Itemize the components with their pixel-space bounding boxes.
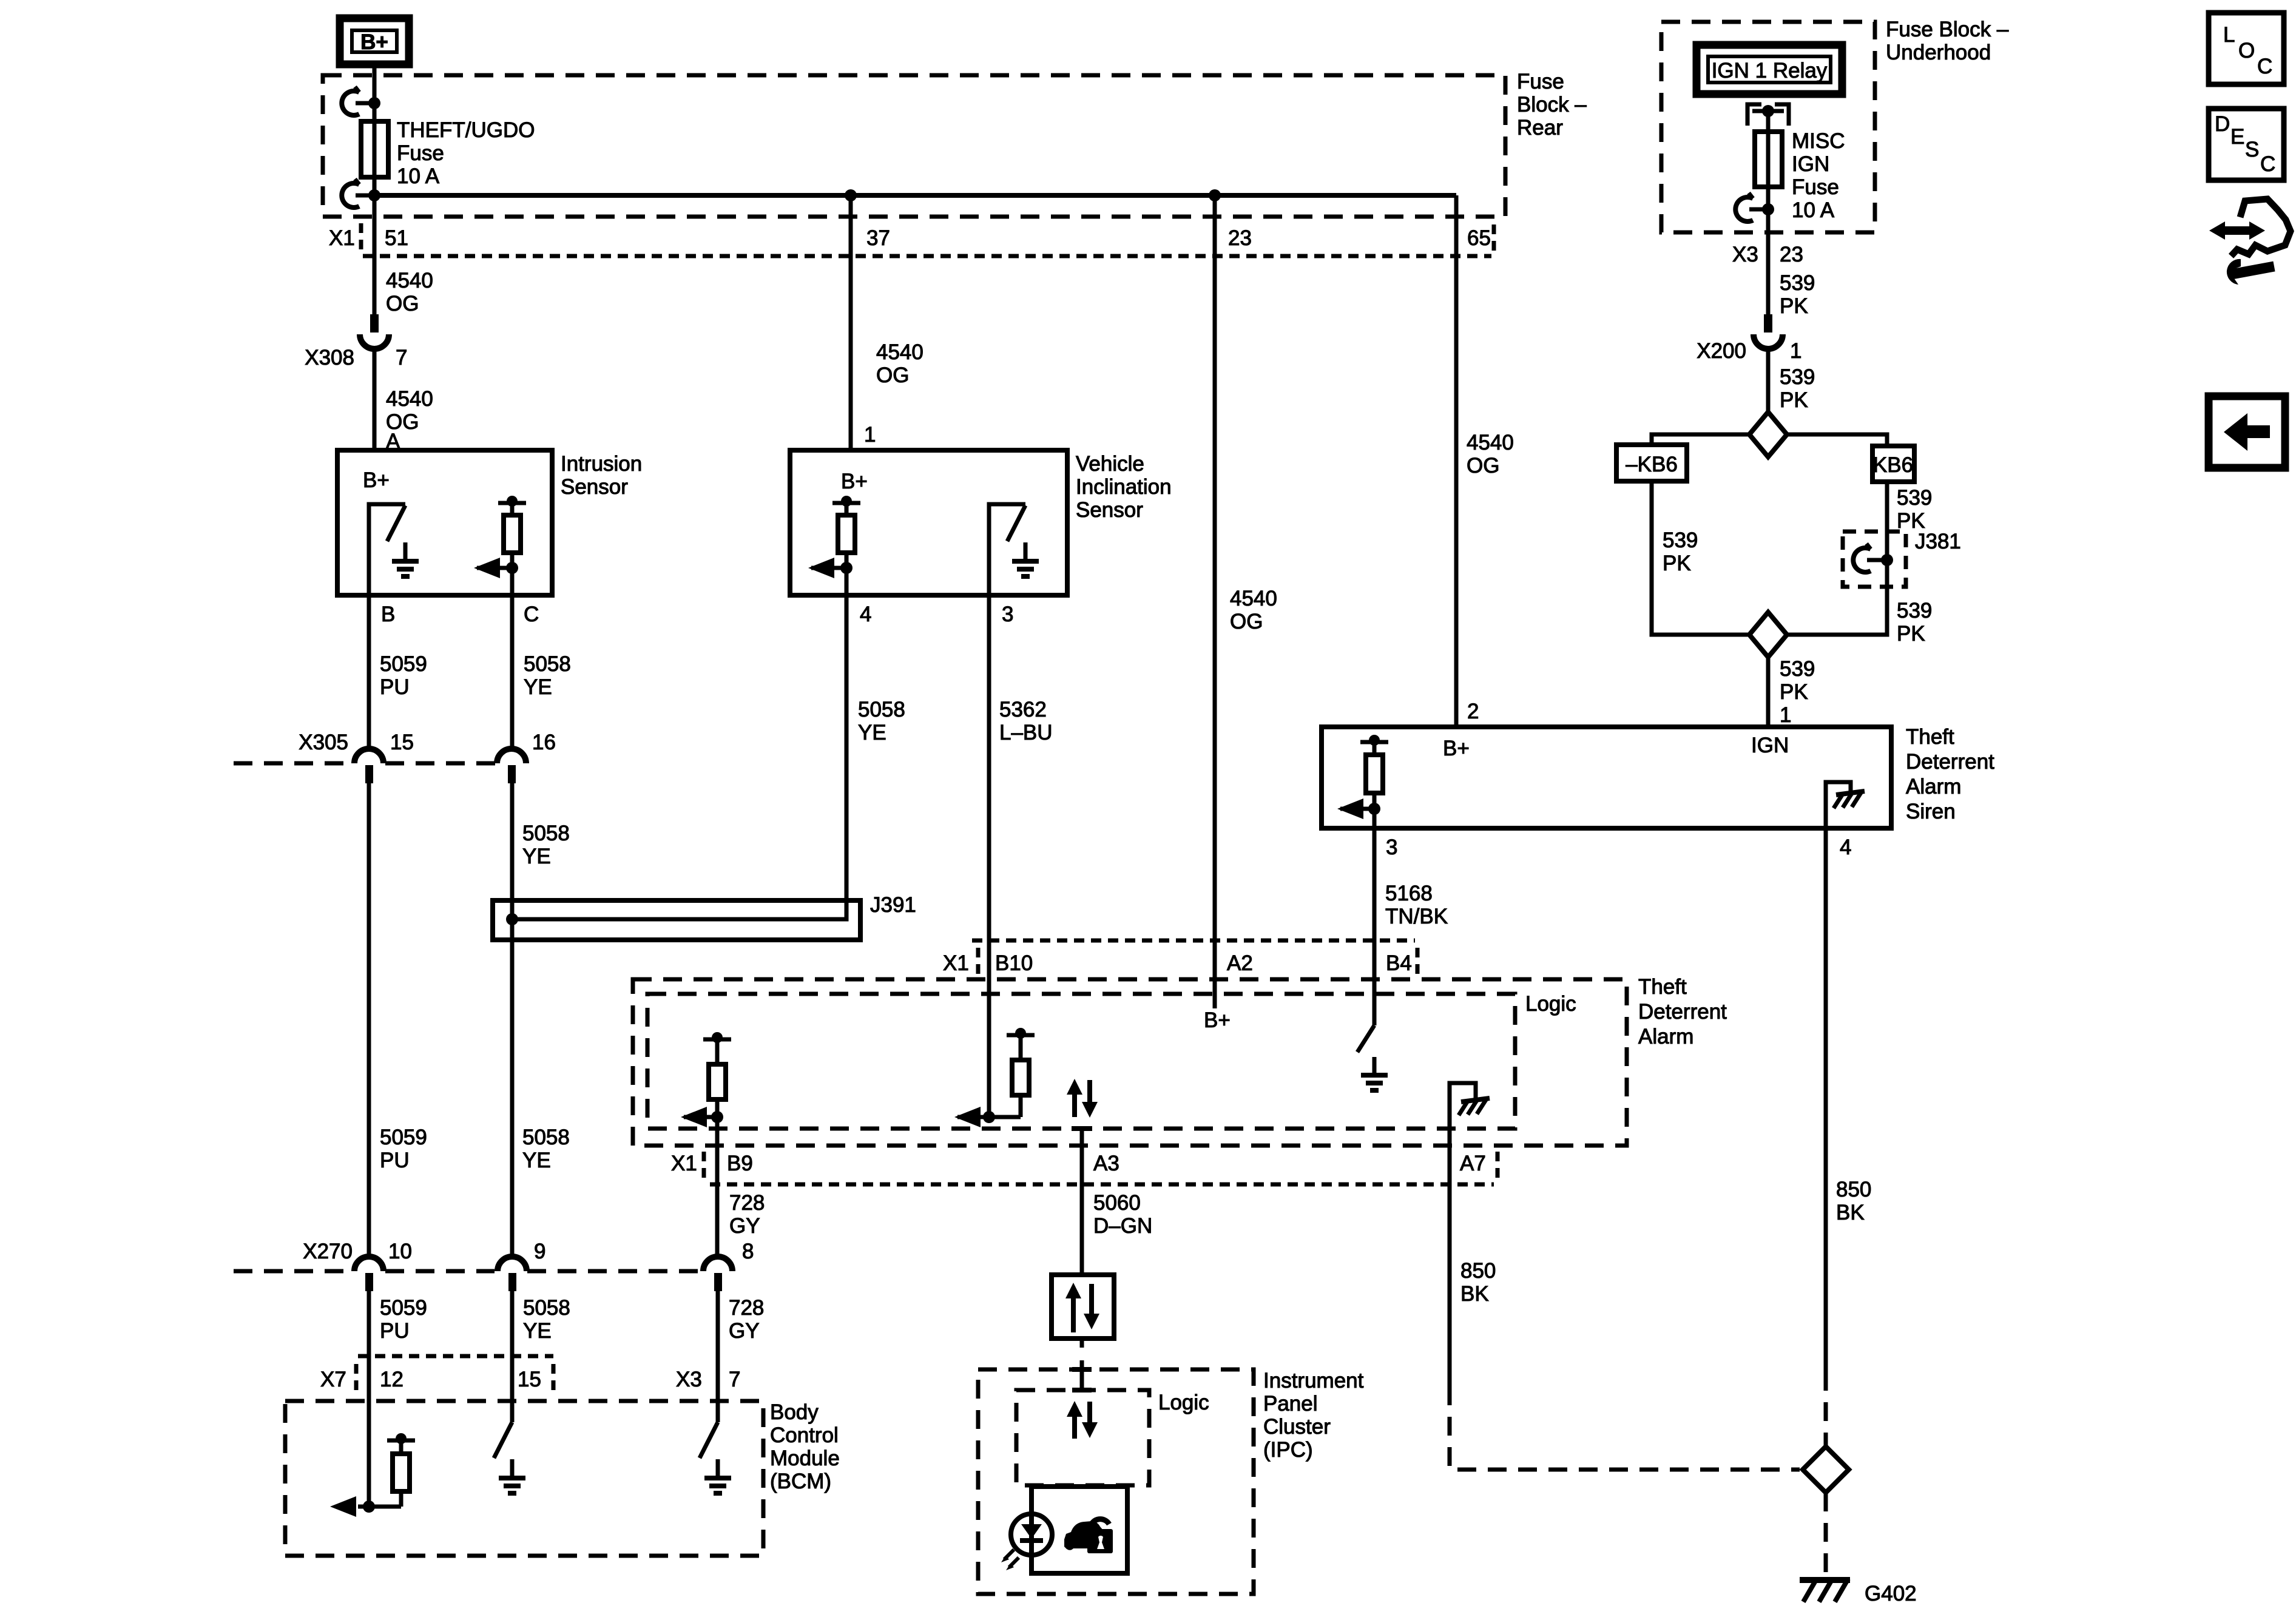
output arrow siren	[1337, 798, 1380, 819]
wire label 539 PK (X3-23)	[1780, 271, 1815, 318]
svg-text:37: 37	[866, 226, 890, 250]
serial data arrows (IPC logic)	[1067, 1401, 1098, 1439]
wire label 5362 L-BU	[999, 698, 1053, 744]
resistor input BCM	[358, 1433, 415, 1507]
label MISC IGN Fuse 10 A	[1792, 129, 1845, 222]
tick right of B4	[1416, 948, 1420, 976]
ground inclination sensor internal	[1012, 542, 1039, 576]
fuse holder clip bottom	[342, 179, 380, 208]
wire label 728 GY (B9)	[729, 1191, 765, 1238]
input arrow BCM	[330, 1496, 356, 1517]
svg-text:Module: Module	[770, 1447, 840, 1470]
wire label 4540 OG (below pin 51)	[386, 269, 433, 316]
wire branch to KB6	[1787, 434, 1887, 446]
tick right of A7	[1496, 1152, 1500, 1180]
svg-text:5059: 5059	[380, 1296, 427, 1320]
connector X305 dashed line	[234, 761, 495, 766]
label THEFT/UGDO Fuse 10 A	[397, 118, 535, 188]
svg-text:15: 15	[518, 1368, 541, 1391]
icon wiring repair	[2209, 199, 2291, 285]
svg-text:PK: PK	[1663, 552, 1691, 575]
svg-text:X308: X308	[305, 346, 354, 370]
wire 5058 YE pin 4 to splice J391	[845, 568, 849, 919]
wire 5362 L-BU pin 3 to alarm B10	[987, 595, 991, 1117]
svg-text:Alarm: Alarm	[1906, 775, 1961, 798]
label Intrusion Sensor	[561, 452, 642, 499]
tick X1 alarm bottom	[702, 1152, 706, 1180]
svg-text:X3: X3	[676, 1368, 702, 1391]
connector X270 pin 10	[354, 1257, 383, 1291]
tick wire at IPC logic edge	[1072, 1388, 1092, 1393]
svg-text:TN/BK: TN/BK	[1385, 905, 1448, 928]
svg-text:B4: B4	[1386, 951, 1412, 975]
svg-text:KB6: KB6	[1873, 453, 1913, 477]
svg-text:C: C	[2260, 152, 2275, 176]
Theft Deterrent Alarm Siren box	[1322, 727, 1891, 828]
svg-text:PK: PK	[1780, 680, 1808, 704]
svg-text:X1: X1	[329, 226, 355, 250]
svg-text:850: 850	[1836, 1178, 1871, 1201]
icon LOC box	[2209, 13, 2284, 84]
svg-text:728: 728	[729, 1191, 765, 1215]
svg-text:Fuse: Fuse	[1517, 70, 1564, 93]
svg-text:A3: A3	[1093, 1152, 1119, 1175]
svg-text:23: 23	[1780, 243, 1803, 266]
svg-text:Fuse: Fuse	[397, 141, 444, 165]
relay IGN 1 Relay box	[1697, 45, 1842, 94]
svg-text:Siren: Siren	[1906, 800, 1956, 823]
wire B+ to fuse holder	[373, 64, 377, 121]
wire 539 PK X200 to splice diamond	[1766, 349, 1771, 414]
Theft Deterrent Alarm outer dashed box	[633, 979, 1627, 1146]
svg-text:10 A: 10 A	[1792, 198, 1835, 222]
svg-text:THEFT/UGDO: THEFT/UGDO	[397, 118, 535, 142]
svg-text:J381: J381	[1915, 530, 1961, 553]
svg-text:Body: Body	[770, 1400, 819, 1424]
input arrow alarm B9	[681, 1107, 723, 1127]
svg-text:5059: 5059	[380, 1126, 427, 1149]
label Vehicle Inclination Sensor	[1076, 452, 1172, 522]
wire stub below serial box	[1080, 1338, 1084, 1348]
svg-text:S: S	[2245, 138, 2259, 161]
svg-text:4540: 4540	[1467, 431, 1514, 454]
svg-text:10 A: 10 A	[397, 164, 440, 188]
svg-text:PK: PK	[1780, 294, 1808, 318]
svg-text:Logic: Logic	[1525, 992, 1576, 1016]
tick X7	[354, 1364, 359, 1393]
svg-text:4: 4	[860, 603, 871, 626]
svg-text:D: D	[2215, 112, 2230, 136]
icon back arrow box	[2209, 396, 2285, 468]
svg-text:OG: OG	[876, 363, 909, 387]
svg-text:4: 4	[1840, 836, 1851, 859]
serial data box IPC top	[1052, 1275, 1114, 1338]
svg-text:PK: PK	[1780, 388, 1808, 412]
svg-text:B+: B+	[360, 30, 388, 54]
svg-text:1: 1	[864, 423, 876, 447]
wire 4540 OG bus to alarm A2	[1213, 195, 1217, 1008]
wire label 850 BK (A7)	[1460, 1259, 1496, 1306]
svg-text:Intrusion: Intrusion	[561, 452, 642, 476]
wire 5059 PU X270 to BCM	[367, 1291, 371, 1507]
LED emission arrows	[1001, 1550, 1019, 1570]
svg-text:L: L	[2223, 23, 2235, 47]
svg-text:A2: A2	[1227, 951, 1253, 975]
serial data arrows alarm A3	[1067, 1079, 1098, 1118]
wire label 5168 TN/BK	[1385, 882, 1448, 928]
wire label 5058 YE	[524, 652, 571, 699]
Instrument Panel Cluster dashed box	[978, 1369, 1254, 1594]
tick right of pin 15	[552, 1364, 556, 1393]
power symbol B+ battery box	[340, 18, 409, 64]
wire 5058 YE pin C to X305-16	[510, 568, 515, 751]
svg-text:B+: B+	[841, 470, 868, 493]
splice diamond lower	[1749, 612, 1787, 657]
svg-text:D–GN: D–GN	[1093, 1214, 1152, 1238]
splice diamond upper	[1749, 412, 1787, 457]
wire 728 GY X270 to BCM	[716, 1291, 720, 1422]
svg-text:539: 539	[1780, 365, 1815, 389]
wire 4540 OG bus to inclination sensor pin 1	[849, 195, 853, 450]
svg-text:5058: 5058	[522, 822, 570, 845]
svg-text:Instrument: Instrument	[1263, 1369, 1364, 1393]
tick right of pin 65	[1492, 224, 1496, 252]
svg-text:539: 539	[1780, 271, 1815, 295]
wire 5060 D-GN alarm A3 to IPC	[1080, 1127, 1084, 1275]
svg-text:OG: OG	[1467, 454, 1499, 478]
wire label 850 BK (siren 4)	[1836, 1178, 1871, 1224]
svg-text:3: 3	[1002, 603, 1013, 626]
svg-text:Sensor: Sensor	[561, 475, 628, 499]
svg-text:Alarm: Alarm	[1638, 1025, 1693, 1048]
wire branch to -KB6	[1652, 434, 1749, 445]
svg-text:PU: PU	[380, 1319, 410, 1343]
svg-text:Inclination: Inclination	[1076, 475, 1172, 499]
svg-text:7: 7	[396, 346, 407, 370]
svg-text:2: 2	[1467, 700, 1479, 723]
wire label 5058 YE (below X305-16)	[522, 822, 570, 868]
wire to indicator LED	[1030, 1485, 1034, 1515]
svg-text:MISC: MISC	[1792, 129, 1845, 153]
svg-text:539: 539	[1897, 486, 1932, 510]
svg-text:4540: 4540	[1230, 587, 1277, 610]
wire label 539 PK (X200)	[1780, 365, 1815, 412]
wire label 5059 PU (lower)	[380, 1126, 427, 1172]
wire label 539 PK (siren 1)	[1780, 657, 1815, 704]
wire 5059 PU pin B to X305-15	[367, 595, 371, 751]
icon car with lock indicator	[1064, 1519, 1113, 1553]
svg-text:PU: PU	[380, 675, 410, 699]
svg-text:YE: YE	[523, 1319, 552, 1343]
Fuse Block - Rear dashed box	[323, 75, 1505, 217]
svg-text:G402: G402	[1865, 1582, 1917, 1605]
wire label 5058 YE (lower)	[522, 1126, 570, 1172]
connector row X1 dotted line	[363, 254, 1491, 258]
junction bus to wire 23	[1209, 189, 1221, 201]
svg-text:Deterrent: Deterrent	[1906, 750, 1994, 774]
wire 4540 OG X308 to intrusion sensor	[373, 349, 377, 450]
svg-text:X3: X3	[1732, 243, 1758, 266]
fuse MISC IGN 10 A	[1755, 132, 1782, 187]
LED indicator	[1011, 1514, 1052, 1555]
ground alarm B4	[1361, 1057, 1388, 1090]
svg-text:Panel: Panel	[1263, 1392, 1318, 1416]
tick wire at IPC box edge	[1072, 1367, 1092, 1372]
tick A3 wire at logic edge	[1072, 1126, 1092, 1131]
junction J391	[506, 913, 518, 925]
connector X200 inline	[1754, 314, 1783, 349]
svg-text:1: 1	[1790, 339, 1801, 363]
wire 850 BK alarm A7 solid part	[1448, 1184, 1452, 1386]
chassis ground siren internal	[1826, 782, 1865, 828]
wire label 4540 OG (below X308)	[386, 387, 433, 434]
svg-text:B10: B10	[995, 951, 1033, 975]
wire 539 PK -KB6 down	[1652, 481, 1749, 635]
switch alarm B4	[1357, 1025, 1374, 1052]
splice J381 dashed box	[1843, 532, 1906, 587]
svg-text:X200: X200	[1697, 339, 1746, 363]
icon DESC box	[2209, 109, 2284, 180]
connector X308 inline	[360, 314, 389, 349]
wire 850 BK alarm A7 dashed part to splice	[1450, 1386, 1800, 1470]
svg-text:8: 8	[742, 1240, 754, 1263]
wire 728 GY alarm B9 to X270-8	[715, 1117, 720, 1257]
splice diamond ground	[1803, 1447, 1849, 1493]
output arrow intrusion	[474, 558, 518, 578]
svg-text:C: C	[2257, 55, 2272, 78]
splice J391 internal wire	[512, 900, 846, 919]
svg-text:23: 23	[1228, 226, 1252, 250]
svg-text:X1: X1	[671, 1152, 697, 1175]
svg-text:Control: Control	[770, 1423, 839, 1447]
connector X305 pin 15	[354, 749, 383, 783]
wire into IPC logic	[1080, 1360, 1084, 1390]
chassis ground alarm A7	[1450, 1083, 1490, 1184]
svg-text:X270: X270	[303, 1240, 353, 1263]
label Fuse Block - Underhood	[1886, 18, 2009, 64]
ground BCM pin 15	[499, 1459, 525, 1493]
svg-text:5362: 5362	[999, 698, 1047, 721]
svg-text:539: 539	[1780, 657, 1815, 681]
wire 5168 TN/BK siren 3 to alarm B4	[1373, 809, 1377, 1025]
serial data arrows (box)	[1065, 1283, 1099, 1332]
svg-text:7: 7	[729, 1368, 740, 1391]
svg-text:(BCM): (BCM)	[770, 1470, 831, 1493]
wire label 5058 YE (BCM)	[523, 1296, 570, 1343]
svg-text:5058: 5058	[523, 1296, 570, 1320]
svg-text:850: 850	[1460, 1259, 1496, 1283]
Vehicle Inclination Sensor box	[790, 450, 1067, 595]
splice J391 box	[493, 900, 860, 940]
svg-text:4540: 4540	[386, 387, 433, 411]
svg-text:5058: 5058	[524, 652, 571, 676]
wire relay to fuse	[1766, 111, 1771, 132]
tick X1 alarm	[976, 948, 981, 976]
Intrusion Sensor box	[337, 450, 552, 595]
junction bus to wire 37	[845, 189, 857, 201]
resistor siren output	[1360, 735, 1388, 809]
svg-text:B+: B+	[1204, 1008, 1231, 1032]
wire 5058 YE X270 to BCM	[510, 1291, 515, 1422]
wire label 539 PK (right branch lower)	[1897, 599, 1932, 646]
tick X1	[359, 223, 363, 251]
output arrow inclination	[808, 558, 853, 578]
connector row X1 (alarm bottom) dotted line	[710, 1183, 1494, 1187]
relay output terminal bracket	[1747, 104, 1789, 126]
splice J381 clip	[1853, 544, 1893, 572]
svg-text:IGN: IGN	[1792, 152, 1829, 176]
Logic inner dashed box (alarm)	[647, 994, 1515, 1129]
svg-text:B+: B+	[1443, 737, 1470, 760]
svg-text:5060: 5060	[1093, 1191, 1141, 1215]
svg-text:Logic: Logic	[1158, 1391, 1209, 1414]
svg-text:–KB6: –KB6	[1626, 453, 1678, 476]
switch BCM pin 15	[494, 1422, 512, 1458]
svg-text:OG: OG	[386, 292, 419, 316]
svg-text:Block –: Block –	[1517, 93, 1587, 116]
svg-text:539: 539	[1663, 528, 1698, 552]
svg-text:A7: A7	[1460, 1152, 1486, 1175]
wire label 539 PK (left branch)	[1663, 528, 1698, 575]
label Fuse Block - Rear	[1517, 70, 1587, 140]
svg-text:16: 16	[532, 731, 556, 754]
fuse holder clip top	[342, 87, 380, 115]
svg-text:B9: B9	[727, 1152, 753, 1175]
svg-text:Underhood: Underhood	[1886, 41, 1991, 64]
wire label 5059 PU (BCM)	[380, 1296, 427, 1343]
svg-text:B: B	[381, 603, 395, 626]
connector row X7 dotted line	[358, 1354, 553, 1359]
svg-text:Theft: Theft	[1638, 975, 1687, 999]
wire dashed diamond to G402	[1824, 1493, 1828, 1575]
svg-text:728: 728	[729, 1296, 764, 1320]
Logic inner dashed box (IPC)	[1016, 1390, 1149, 1485]
wire 5059 PU X305 to X270	[367, 783, 371, 1258]
svg-text:15: 15	[390, 731, 414, 754]
wire label 5059 PU	[380, 652, 427, 699]
connector X270 dashed line	[234, 1269, 701, 1274]
svg-text:J391: J391	[870, 893, 916, 917]
svg-text:GY: GY	[729, 1214, 760, 1238]
svg-text:4540: 4540	[876, 340, 923, 364]
svg-text:X305: X305	[299, 731, 348, 754]
svg-text:Fuse: Fuse	[1792, 175, 1839, 199]
connector X305 pin 16	[497, 749, 526, 783]
wire label 4540 OG (wire 65)	[1467, 431, 1514, 478]
input arrow alarm B10	[954, 1107, 995, 1127]
svg-text:BK: BK	[1460, 1282, 1489, 1306]
label Theft Deterrent Alarm Siren	[1906, 725, 1994, 823]
svg-text:51: 51	[385, 226, 408, 250]
wire 539 PK diamond to siren IGN	[1766, 657, 1771, 727]
wire 539 PK fuse to X200	[1766, 132, 1771, 314]
switch intrusion sensor	[369, 504, 405, 595]
svg-text:X7: X7	[320, 1368, 346, 1391]
switch inclination sensor	[989, 504, 1025, 595]
connector X270 pin 8	[703, 1257, 732, 1291]
resistor input alarm B9	[703, 1032, 731, 1117]
connector row X1 (alarm top) dotted line	[972, 939, 1415, 943]
svg-text:OG: OG	[1230, 610, 1263, 633]
svg-text:Cluster: Cluster	[1263, 1415, 1331, 1439]
wire label 539 PK (right branch upper)	[1897, 486, 1932, 533]
svg-text:YE: YE	[858, 721, 886, 744]
wire 850 BK siren 4 solid part	[1824, 828, 1828, 1372]
wire label 5058 YE (pin 4)	[858, 698, 905, 744]
resistor input alarm B10	[989, 1028, 1035, 1117]
label Theft Deterrent Alarm	[1638, 975, 1727, 1048]
svg-text:Vehicle: Vehicle	[1076, 452, 1144, 476]
svg-text:5168: 5168	[1385, 882, 1433, 905]
wire 850 BK siren 4 dashed part	[1824, 1372, 1828, 1447]
svg-text:YE: YE	[522, 845, 551, 868]
wire 4540 OG bus to siren pin 2	[1454, 195, 1459, 727]
svg-text:Fuse Block –: Fuse Block –	[1886, 18, 2009, 41]
connector X270 pin 9	[498, 1257, 527, 1291]
svg-text:X1: X1	[943, 951, 969, 975]
ground intrusion sensor internal	[392, 542, 419, 576]
label Instrument Panel Cluster (IPC)	[1263, 1369, 1364, 1462]
svg-text:3: 3	[1386, 836, 1397, 859]
resistor sensing element intrusion	[498, 496, 526, 568]
svg-text:GY: GY	[729, 1319, 760, 1343]
svg-text:4540: 4540	[386, 269, 433, 292]
resistor sensing element inclination	[832, 496, 860, 568]
Fuse Block - Underhood dashed box	[1661, 22, 1875, 232]
svg-text:E: E	[2230, 125, 2244, 149]
svg-text:5059: 5059	[380, 652, 427, 676]
svg-text:1: 1	[1780, 703, 1791, 727]
svg-text:PU: PU	[380, 1149, 410, 1172]
wire label 4540 OG (wire 37)	[876, 340, 923, 387]
svg-text:PK: PK	[1897, 622, 1925, 646]
node -KB6 box	[1616, 445, 1687, 481]
wire main B+ bus	[374, 193, 1456, 198]
indicator box IPC	[1032, 1487, 1127, 1573]
label Body Control Module (BCM)	[770, 1400, 840, 1493]
wire 539 PK KB6 down through J381	[1787, 482, 1887, 635]
wire 5058 YE X305 to X270	[510, 783, 515, 1258]
ground BCM pin 7	[704, 1459, 731, 1493]
svg-text:9: 9	[534, 1240, 545, 1263]
svg-text:5058: 5058	[858, 698, 905, 721]
svg-text:Deterrent: Deterrent	[1638, 1000, 1727, 1024]
svg-text:YE: YE	[524, 675, 552, 699]
Body Control Module dashed box	[285, 1401, 763, 1556]
switch BCM pin 7	[700, 1422, 718, 1458]
wire label 4540 OG (wire 23)	[1230, 587, 1277, 633]
svg-text:10: 10	[388, 1240, 412, 1263]
fuse THEFT/UGDO 10 A	[361, 121, 388, 177]
wire label 728 GY (BCM)	[729, 1296, 764, 1343]
svg-text:Sensor: Sensor	[1076, 498, 1143, 522]
ground G402	[1800, 1579, 1850, 1602]
svg-text:65: 65	[1467, 226, 1491, 250]
svg-text:YE: YE	[522, 1149, 551, 1172]
fuse holder clip (MISC IGN)	[1735, 193, 1774, 221]
svg-text:L–BU: L–BU	[999, 721, 1053, 744]
svg-text:(IPC): (IPC)	[1263, 1438, 1313, 1462]
node KB6 box	[1872, 446, 1914, 482]
svg-text:O: O	[2238, 39, 2255, 62]
svg-text:B+: B+	[363, 468, 390, 492]
svg-text:Rear: Rear	[1517, 116, 1563, 140]
svg-text:BK: BK	[1836, 1201, 1865, 1224]
svg-text:C: C	[524, 603, 539, 626]
svg-text:5058: 5058	[522, 1126, 570, 1149]
wire label 5060 D-GN	[1093, 1191, 1152, 1238]
svg-text:IGN: IGN	[1751, 734, 1789, 757]
